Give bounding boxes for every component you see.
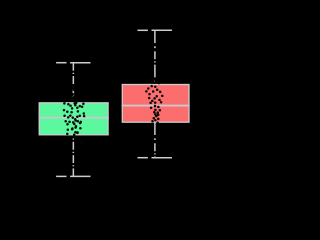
green box top cap bbox=[56, 62, 90, 64]
red box bbox=[122, 85, 189, 123]
green box bottom cap bbox=[56, 175, 90, 177]
red box top whisker bbox=[154, 30, 156, 84]
red box median bbox=[122, 105, 190, 107]
red box bottom cap bbox=[138, 157, 172, 159]
green box top whisker bbox=[72, 63, 74, 103]
red box bottom whisker bbox=[154, 122, 156, 158]
green jitter points bbox=[63, 86, 86, 145]
red jitter points bbox=[145, 79, 163, 124]
green box median bbox=[39, 117, 109, 119]
green box bbox=[39, 103, 108, 135]
red box top cap bbox=[138, 29, 172, 31]
green box bottom whisker bbox=[72, 135, 74, 177]
